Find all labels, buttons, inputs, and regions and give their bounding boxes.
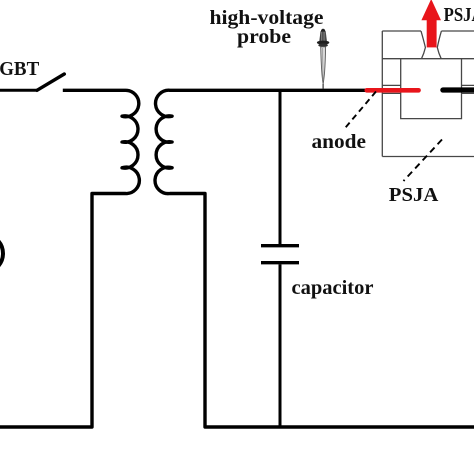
svg-text:anode: anode — [312, 131, 367, 153]
svg-text:capacitor: capacitor — [292, 277, 374, 299]
svg-text:PSJA: PSJA — [444, 4, 474, 26]
svg-text:probe: probe — [237, 26, 291, 48]
svg-text:PSJA: PSJA — [389, 184, 439, 206]
svg-text:GBT: GBT — [0, 58, 39, 80]
